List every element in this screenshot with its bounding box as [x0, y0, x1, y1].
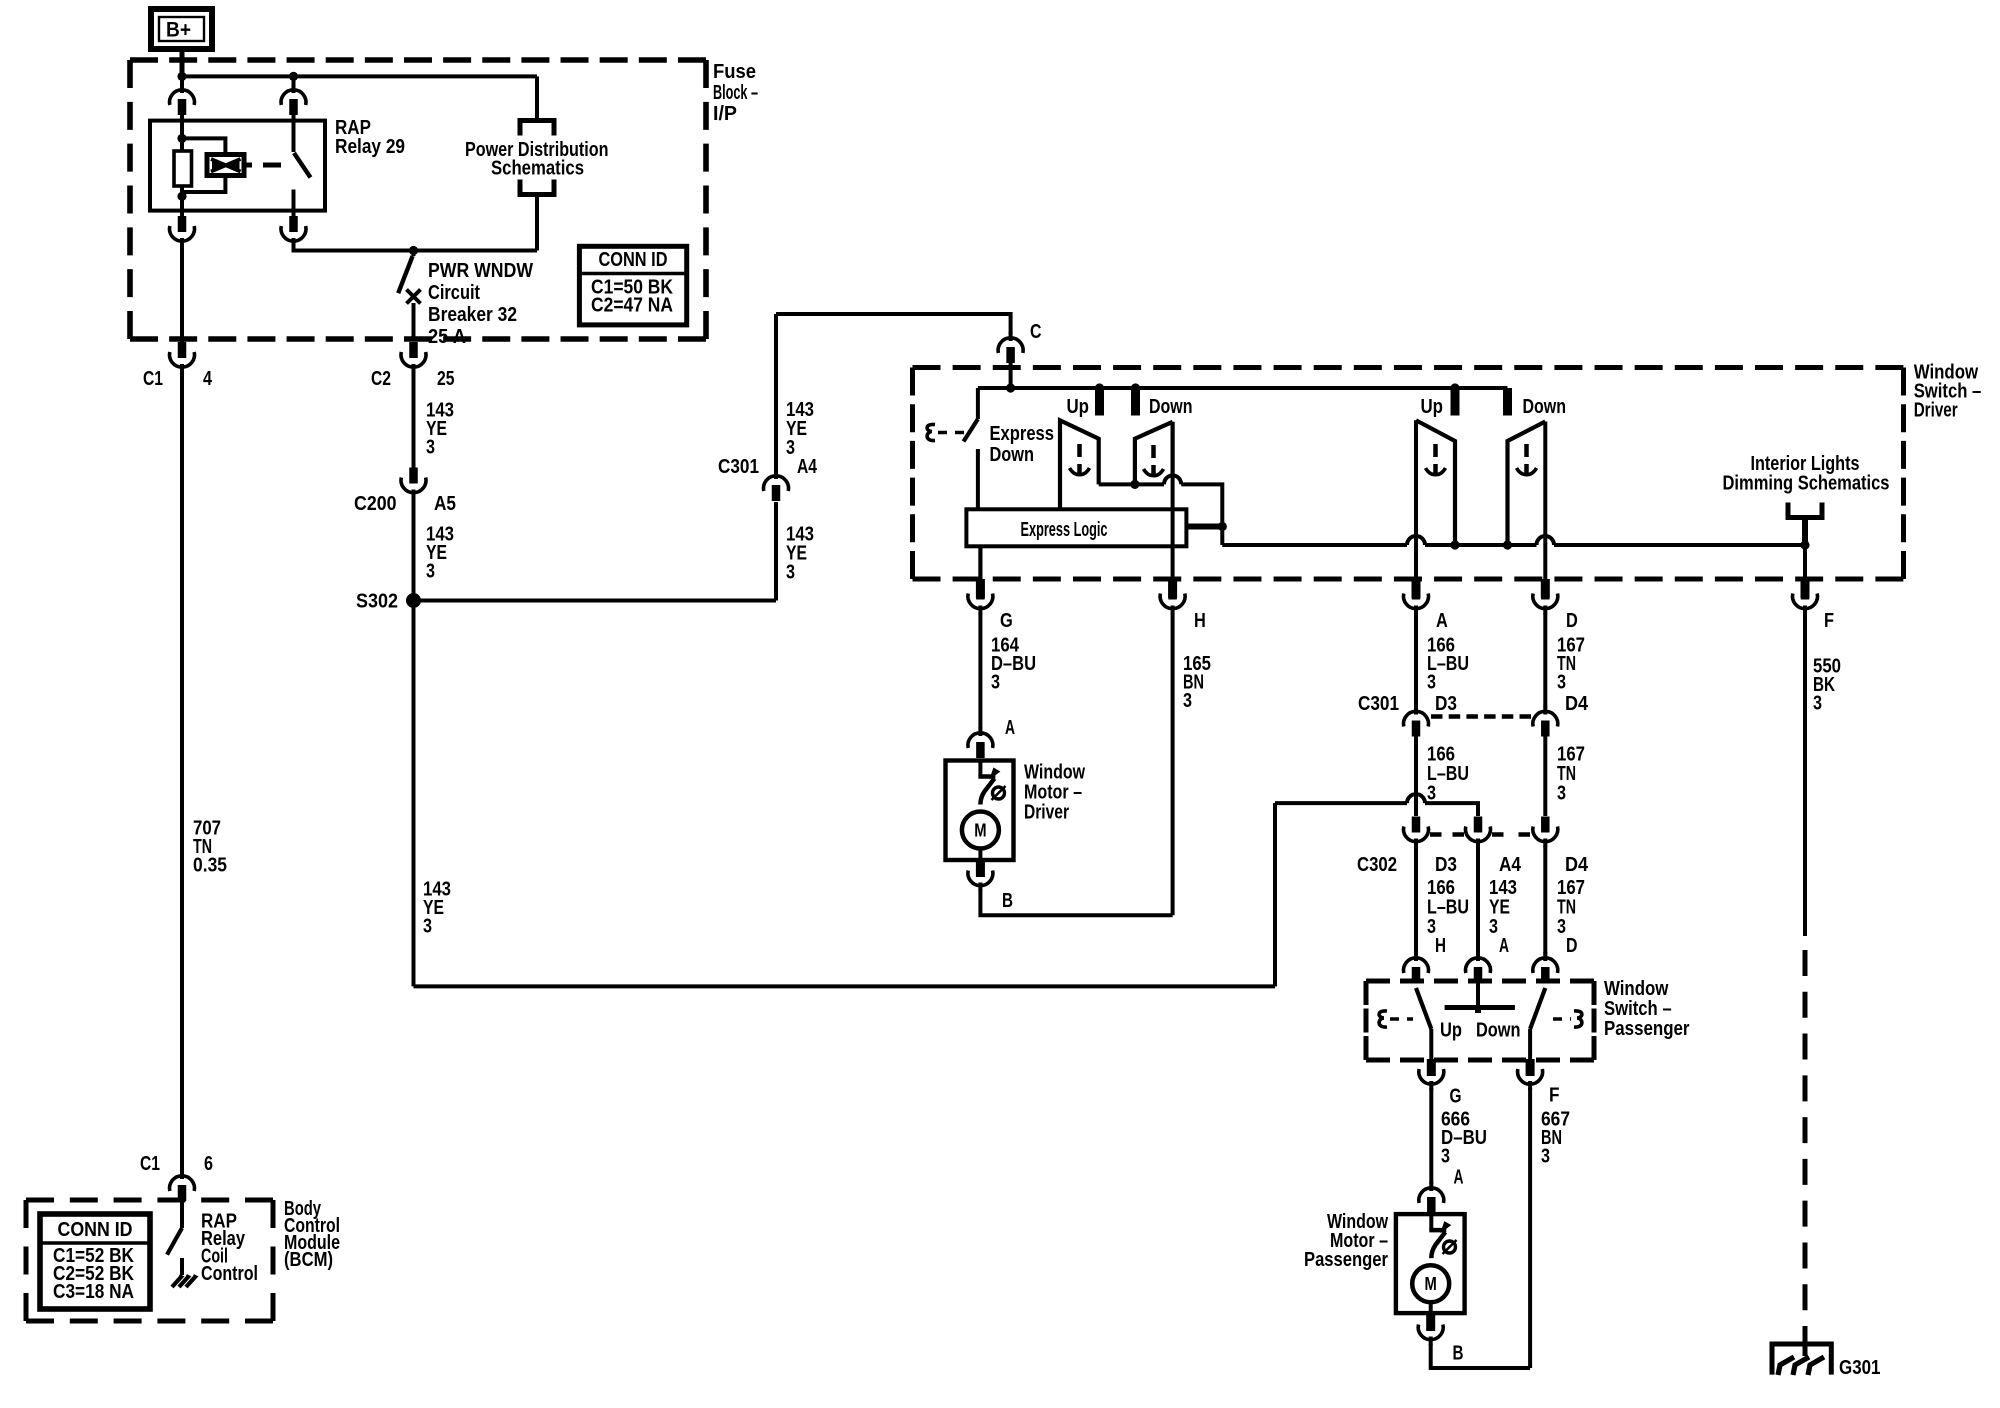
RAP relay coil control lower contact	[180, 1258, 184, 1275]
connector B passenger motor	[1426, 1313, 1435, 1331]
svg-text:D: D	[1566, 935, 1578, 957]
wire 143 YE to C200	[412, 371, 416, 469]
window switch driver dashed border	[913, 365, 1904, 370]
wire S302 down to passenger feed run	[412, 601, 416, 987]
PWR WNDW circuit breaker 32	[412, 251, 416, 257]
wire 166 L-BU C301 to C302	[1414, 735, 1418, 817]
svg-text:C1: C1	[140, 1153, 160, 1175]
switch feed bus	[978, 386, 1508, 390]
wire 167 TN C301 to C302	[1543, 735, 1547, 817]
Express Logic box	[966, 509, 1186, 546]
CONN ID table (BCM)	[40, 1214, 150, 1309]
svg-text:M: M	[974, 821, 986, 841]
connector pin H (driver switch output)	[1160, 594, 1185, 609]
svg-text:3: 3	[1427, 783, 1436, 805]
svg-text:C1: C1	[143, 368, 163, 390]
svg-text:Express Logic: Express Logic	[1021, 519, 1108, 541]
relay solid-state coil symbol	[207, 155, 244, 176]
driver motor B loop wire	[980, 890, 1172, 916]
svg-text:C: C	[1030, 321, 1042, 343]
svg-text:3: 3	[1427, 672, 1436, 694]
svg-text:C2=47 NA: C2=47 NA	[591, 295, 673, 317]
connector C302-A4	[1466, 827, 1491, 842]
contact link wire Up1-Down1	[1099, 482, 1164, 486]
wire 166 L-BU from A to C301-D3	[1414, 613, 1418, 709]
wire riser to C302 run	[1273, 803, 1277, 986]
wire 707 TN to BCM	[180, 371, 184, 1172]
driver Down switch flag blade	[1135, 422, 1173, 485]
express down lower contact wire	[976, 449, 980, 509]
svg-text:25: 25	[437, 368, 455, 390]
svg-text:I/P: I/P	[713, 103, 737, 125]
svg-text:A4: A4	[1499, 854, 1522, 876]
wire 143 YE C302 to passenger switch A	[1476, 846, 1480, 956]
svg-text:C301: C301	[1358, 693, 1399, 715]
wire bus to F pin	[1803, 545, 1807, 581]
relay coil wire top	[180, 113, 184, 152]
fuse block dashed border	[130, 57, 706, 63]
connector pin G (driver switch output)	[978, 546, 982, 584]
connector C into driver switch	[998, 338, 1023, 353]
svg-text:0.35: 0.35	[193, 855, 227, 877]
svg-text:Fuse: Fuse	[713, 61, 756, 83]
svg-text:D4: D4	[1565, 693, 1589, 715]
svg-text:3: 3	[1489, 916, 1498, 938]
svg-text:Relay 29: Relay 29	[335, 136, 405, 158]
power distribution reference bottom bracket	[520, 180, 554, 195]
interior lights reference bracket	[1788, 503, 1822, 518]
wire 666 D-BU to passenger motor	[1429, 1088, 1433, 1184]
driver Down momentary arrow	[1151, 445, 1156, 458]
passenger Down momentary arrow	[1524, 444, 1529, 457]
passenger Down output rail (D wire)	[1543, 422, 1547, 581]
passenger switch H blade	[1416, 988, 1431, 1029]
svg-text:H: H	[1435, 935, 1446, 957]
RAP relay coil control blade	[167, 1228, 182, 1255]
passenger motor thermal Ø	[1444, 1241, 1456, 1253]
svg-text:3: 3	[1183, 690, 1192, 712]
connector C301-A4	[764, 476, 789, 491]
svg-text:Circuit: Circuit	[428, 282, 480, 304]
junction C feed	[1006, 383, 1015, 392]
express logic output stub	[1186, 524, 1222, 530]
express down switch blade	[964, 419, 978, 442]
wire B+ to fuse block	[180, 49, 185, 76]
linkage dashes to express blade	[938, 431, 966, 435]
wire bottom run to riser	[414, 984, 1276, 988]
connector pin G passenger switch	[1427, 1059, 1436, 1076]
svg-text:Motor –: Motor –	[1024, 782, 1082, 804]
window motor driver box	[946, 761, 1014, 861]
driver switch linkage hook	[927, 424, 935, 440]
ground G301 bracket	[1803, 1338, 1808, 1356]
junction at circuit breaker	[409, 246, 418, 255]
hop over A rail	[1407, 536, 1425, 545]
svg-text:C301: C301	[718, 456, 759, 478]
driver Up contact stub	[1095, 383, 1104, 392]
svg-text:Schematics: Schematics	[491, 158, 584, 180]
svg-text:3: 3	[1541, 1146, 1550, 1168]
hop over H rail	[1164, 475, 1181, 484]
wire 143 YE to splice S302	[412, 497, 416, 601]
svg-text:B+: B+	[166, 19, 191, 42]
svg-text:A: A	[1005, 717, 1015, 739]
CONN ID table (fuse block)	[579, 246, 686, 325]
svg-text:G: G	[1450, 1086, 1462, 1108]
junction passenger Up output	[1450, 540, 1459, 549]
wire run to C302-A4 with hop over 166 L-BU	[1275, 801, 1407, 805]
svg-text:Window: Window	[1604, 978, 1669, 1000]
svg-text:H: H	[1194, 610, 1206, 632]
svg-text:4: 4	[203, 368, 213, 390]
C301 connector body dashes	[1431, 714, 1531, 718]
wire C301-A4 up to window switch C pin	[774, 314, 778, 472]
relay switch contact top	[292, 113, 296, 152]
svg-text:S302: S302	[356, 591, 398, 613]
passenger Up contact stub (driver switch)	[1450, 383, 1459, 392]
svg-text:(BCM): (BCM)	[284, 1249, 333, 1271]
connector pin D passenger switch	[1533, 958, 1558, 973]
passenger Up switch flag (driver switch)	[1416, 420, 1455, 545]
svg-text:A5: A5	[434, 493, 456, 515]
relay linkage dashes	[263, 163, 281, 168]
passenger switch Down output wire	[1528, 1029, 1532, 1062]
connector pin H passenger switch	[1404, 958, 1429, 973]
svg-text:F: F	[1824, 610, 1834, 632]
driver motor thermal Ø	[993, 787, 1005, 799]
svg-text:A: A	[1454, 1167, 1464, 1189]
connector A passenger motor	[1419, 1188, 1444, 1203]
svg-text:CONN ID: CONN ID	[599, 249, 668, 271]
svg-text:3: 3	[423, 916, 432, 938]
connector pin A passenger switch	[1466, 958, 1491, 973]
connector C2-25 (fuse block output)	[401, 352, 426, 367]
wire S302 right to C301-A4 column	[414, 599, 777, 603]
passenger Down contact stub (driver switch)	[1503, 388, 1512, 416]
svg-text:Passenger: Passenger	[1604, 1018, 1690, 1040]
relay output connector (coil side)	[170, 226, 195, 241]
connector pin F passenger switch	[1526, 1059, 1535, 1076]
passenger Up output rail (A wire)	[1414, 420, 1418, 580]
connector into relay (switch side)	[292, 76, 296, 88]
junction at relay switch drop	[289, 72, 298, 81]
svg-text:A: A	[1436, 610, 1448, 632]
svg-text:25 A: 25 A	[428, 326, 466, 348]
connector pin A (driver switch output)	[1404, 594, 1429, 609]
relay coil branch wires	[182, 138, 225, 154]
wire 167 TN from D to C301-D4	[1543, 613, 1547, 709]
svg-text:Dimming Schematics: Dimming Schematics	[1723, 473, 1890, 495]
svg-text:G301: G301	[1839, 1357, 1881, 1379]
pin stubs across driver switch border	[976, 579, 985, 598]
svg-text:3: 3	[426, 561, 435, 583]
junction at B+ drop	[177, 72, 186, 81]
wire 165 BN from H to driver motor B loop	[1171, 613, 1175, 916]
passenger switch Up output wire	[1429, 1029, 1433, 1062]
svg-text:M: M	[1425, 1274, 1437, 1294]
express down switch drop	[976, 388, 980, 419]
svg-text:Down: Down	[1523, 396, 1567, 418]
connector B driver motor	[976, 860, 985, 877]
passenger Down switch flag (driver switch)	[1508, 422, 1546, 546]
svg-text:Window: Window	[1024, 762, 1085, 784]
passenger linkage hook right	[1574, 1011, 1582, 1027]
svg-text:PWR WNDW: PWR WNDW	[428, 260, 533, 282]
svg-text:D: D	[1566, 610, 1578, 632]
relay output connector (switch side)	[281, 226, 306, 241]
svg-text:CONN ID: CONN ID	[58, 1219, 133, 1241]
wire bracket to bus junction	[1802, 518, 1808, 546]
svg-text:Switch –: Switch –	[1604, 998, 1672, 1020]
svg-text:C200: C200	[354, 493, 397, 515]
passenger Up momentary arrow	[1433, 444, 1438, 457]
connector C301-D4	[1533, 711, 1558, 726]
driver Down switch output rail (to H)	[1170, 422, 1174, 477]
wire 550 BK dashed continuation	[1803, 950, 1808, 1352]
svg-text:Down: Down	[1476, 1020, 1521, 1042]
hop over D rail	[1537, 536, 1555, 545]
connector pin F (driver switch output)	[1792, 594, 1817, 609]
svg-text:3: 3	[991, 672, 1000, 694]
wire to express-logic junction	[1181, 484, 1222, 545]
svg-text:3: 3	[1813, 693, 1822, 715]
passenger linkage hook left	[1379, 1011, 1387, 1027]
svg-text:Block –: Block –	[713, 82, 758, 104]
wire 166 L-BU C302 to passenger switch H	[1414, 846, 1418, 956]
relay switch contact bottom	[292, 190, 296, 219]
relay coil resistor	[174, 151, 192, 186]
wire power distribution to breaker bus	[535, 195, 539, 251]
relay coil wire bottom	[180, 186, 184, 218]
driver motor M symbol	[962, 812, 999, 849]
wire relay coil output to C1-4	[180, 245, 184, 346]
wire relay to breaker junction	[294, 245, 538, 251]
svg-text:Driver: Driver	[1024, 802, 1069, 824]
bus wire from B+ node to power distribution drop	[182, 74, 537, 78]
wire 550 BK from F (solid part)	[1803, 613, 1807, 937]
G wire from express logic box	[978, 546, 982, 580]
svg-text:Control: Control	[201, 1263, 258, 1285]
passenger motor M symbol	[1412, 1265, 1449, 1302]
svg-text:C302: C302	[1357, 854, 1397, 876]
junction passenger Down output	[1503, 540, 1512, 549]
driver Up momentary arrow	[1077, 444, 1082, 457]
passenger switch D blade	[1530, 988, 1545, 1029]
svg-text:3: 3	[1557, 783, 1566, 805]
splice S302	[406, 593, 421, 608]
svg-text:3: 3	[786, 437, 795, 459]
connector C200-A5	[401, 478, 426, 493]
svg-text:D4: D4	[1565, 854, 1589, 876]
connector C301-D3	[1404, 711, 1429, 726]
connector into relay (coil side)	[180, 76, 184, 88]
svg-text:6: 6	[204, 1153, 213, 1175]
svg-text:Passenger: Passenger	[1304, 1249, 1388, 1271]
connector pin D (driver switch output)	[1533, 594, 1558, 609]
BCM internal ground	[172, 1276, 181, 1287]
window motor passenger box	[1396, 1214, 1465, 1313]
svg-text:Up: Up	[1440, 1020, 1462, 1042]
svg-text:D3: D3	[1435, 693, 1457, 715]
power feed B+ box	[151, 9, 212, 49]
wire 164 D-BU to driver motor A	[978, 613, 982, 730]
connector C1-4 (fuse block output)	[170, 352, 195, 367]
wire 167 TN C302 to passenger switch D	[1543, 846, 1547, 956]
svg-text:B: B	[1002, 890, 1013, 912]
svg-text:3: 3	[1557, 672, 1566, 694]
RAP Relay 29 box	[150, 121, 325, 211]
svg-text:Up: Up	[1067, 396, 1090, 418]
relay switch blade	[294, 153, 311, 178]
svg-text:B: B	[1453, 1343, 1464, 1365]
connector C302-D4	[1533, 827, 1558, 842]
svg-text:3: 3	[1441, 1146, 1450, 1168]
connector A driver motor	[968, 733, 993, 748]
svg-text:Up: Up	[1421, 396, 1444, 418]
svg-text:G: G	[1000, 610, 1013, 632]
wire 667 BN to passenger motor loop	[1528, 1088, 1532, 1368]
driver Up switch flag	[1060, 420, 1099, 509]
connector C302-D3	[1404, 827, 1429, 842]
passenger switch A common bar	[1476, 981, 1480, 1008]
passenger motor B loop wire	[1431, 1344, 1530, 1369]
svg-text:3: 3	[786, 562, 795, 584]
svg-text:Down: Down	[1149, 396, 1193, 418]
RAP relay coil control switch wire	[180, 1199, 184, 1228]
svg-text:F: F	[1549, 1085, 1560, 1107]
driver motor internal breaker	[978, 761, 982, 777]
svg-text:C3=18 NA: C3=18 NA	[53, 1281, 134, 1303]
window switch passenger dashed border	[1366, 979, 1594, 984]
svg-text:D3: D3	[1435, 854, 1457, 876]
svg-text:3: 3	[426, 437, 435, 459]
svg-text:Down: Down	[990, 444, 1035, 466]
svg-text:3: 3	[1557, 916, 1566, 938]
driver switch common bus to passenger contacts	[1222, 543, 1407, 547]
svg-text:Breaker 32: Breaker 32	[428, 304, 517, 326]
driver Down contact stub	[1131, 383, 1140, 392]
ground G301 hatches	[1778, 1357, 1794, 1375]
power distribution reference top bracket	[520, 121, 554, 136]
svg-text:A: A	[1499, 935, 1509, 957]
svg-text:A4: A4	[797, 456, 818, 478]
svg-text:Express: Express	[990, 423, 1055, 445]
svg-text:C2: C2	[371, 368, 391, 390]
C302 connector body dashes	[1430, 832, 1464, 836]
svg-text:Driver: Driver	[1914, 400, 1958, 422]
BCM dashed border	[26, 1198, 273, 1203]
passenger motor internal breaker	[1429, 1214, 1433, 1230]
